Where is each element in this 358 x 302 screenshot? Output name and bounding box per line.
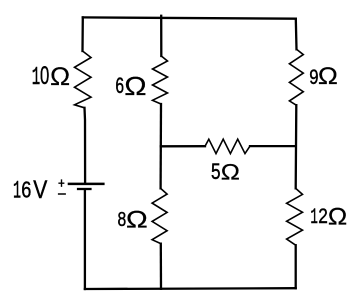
svg-text:Ω: Ω <box>328 204 347 230</box>
svg-text:5: 5 <box>211 160 221 185</box>
svg-text:Ω: Ω <box>318 63 338 90</box>
svg-text:Ω: Ω <box>124 72 146 101</box>
svg-text:Ω: Ω <box>221 160 240 185</box>
svg-text:1: 1 <box>310 204 318 230</box>
svg-text:1: 1 <box>13 176 21 205</box>
svg-text:6: 6 <box>115 74 124 98</box>
svg-text:2: 2 <box>318 204 328 228</box>
svg-text:0: 0 <box>40 63 49 90</box>
svg-text:Ω: Ω <box>50 62 70 91</box>
svg-text:6: 6 <box>21 178 31 204</box>
svg-text:1: 1 <box>32 64 40 93</box>
svg-text:Ω: Ω <box>126 206 148 233</box>
svg-text:V: V <box>33 175 48 203</box>
